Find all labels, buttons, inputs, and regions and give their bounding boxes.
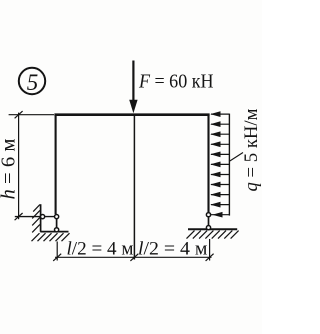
svg-text:l/2 = 4 м: l/2 = 4 м	[138, 239, 207, 260]
svg-text:h = 6 м: h = 6 м	[0, 139, 20, 200]
svg-text:F = 60 кН: F = 60 кН	[138, 71, 213, 93]
svg-text:5: 5	[27, 70, 39, 95]
svg-text:l/2 = 4 м: l/2 = 4 м	[67, 239, 134, 260]
svg-text:q = 5 кН/м: q = 5 кН/м	[241, 109, 262, 192]
